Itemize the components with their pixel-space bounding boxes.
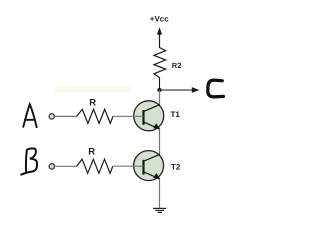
svg-text:R: R bbox=[89, 97, 96, 108]
svg-text:T1: T1 bbox=[171, 110, 181, 119]
Vcc arrow bbox=[157, 27, 162, 48]
highlight band bbox=[55, 87, 131, 93]
input A (hand letter) bbox=[23, 104, 36, 127]
resistor R (input B) bbox=[77, 159, 113, 173]
wire node to T1 collector bbox=[159, 90, 161, 105]
svg-text:R: R bbox=[88, 146, 95, 157]
transistor T2 bbox=[134, 151, 164, 181]
ground bbox=[153, 208, 166, 212]
node C (hand letter) bbox=[208, 80, 224, 97]
wire resistor to T2 base bbox=[113, 165, 144, 167]
wire A terminal to resistor bbox=[55, 115, 77, 117]
wire resistor to T1 base bbox=[113, 115, 144, 117]
terminal B bbox=[49, 164, 54, 169]
wire T2 emitter to ground bbox=[159, 179, 161, 208]
output arrow to C bbox=[160, 87, 200, 93]
transistor T1 bbox=[134, 101, 164, 131]
input B (hand letter) bbox=[21, 148, 37, 174]
resistor R2 bbox=[154, 48, 166, 78]
node junction dot bbox=[157, 88, 161, 92]
wire R2 to node bbox=[159, 78, 161, 90]
wire T1 emitter to T2 collector bbox=[159, 129, 161, 155]
svg-text:+Vcc: +Vcc bbox=[150, 14, 169, 23]
wire B terminal to resistor bbox=[55, 165, 77, 167]
resistor R (input A) bbox=[77, 109, 113, 123]
terminal A bbox=[49, 114, 54, 119]
svg-text:T2: T2 bbox=[171, 162, 181, 171]
svg-text:R2: R2 bbox=[172, 61, 182, 70]
